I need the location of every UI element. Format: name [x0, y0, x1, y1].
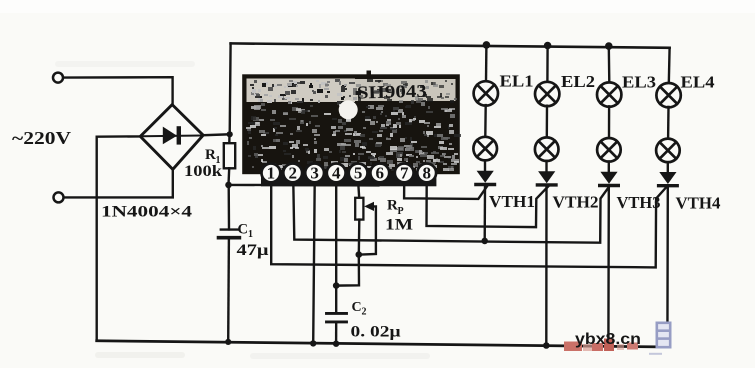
wire T2 to bridge bottom	[64, 167, 173, 197]
svg-text:EL1: EL1	[500, 72, 534, 91]
resistor R1	[228, 134, 231, 143]
wire EL1a to EL1b	[484, 105, 487, 137]
svg-text:1: 1	[267, 164, 276, 183]
wire pin5 to RP	[358, 182, 359, 198]
wire rail to EL1a	[485, 45, 488, 82]
wire VTH4 cathode to bottom rail	[666, 188, 669, 345]
wire VTH1 cathode to pin2 line	[484, 187, 487, 241]
svg-text:EL2: EL2	[561, 72, 595, 91]
svg-text:5: 5	[354, 164, 363, 183]
svg-text:ybx8.cn: ybx8.cn	[575, 331, 641, 348]
svg-text:3: 3	[310, 164, 319, 183]
lamp EL4a	[656, 83, 680, 107]
svg-text:VTH4: VTH4	[676, 194, 721, 213]
pin number labels 1-8	[267, 164, 431, 183]
top rail	[231, 43, 670, 47]
pin 1	[262, 164, 281, 183]
wire bridge DC+ to node	[203, 133, 230, 136]
wire pin4 down	[335, 182, 337, 312]
potentiometer RP	[355, 198, 363, 220]
svg-text:1M: 1M	[385, 217, 413, 234]
wire pin7 to VTH1 gate	[404, 182, 487, 199]
lamp EL3b	[597, 138, 621, 162]
svg-text:2: 2	[288, 164, 297, 183]
thyristor VTH2	[538, 171, 555, 183]
lamp EL1b	[473, 137, 497, 161]
wire left rail up to top rail	[228, 43, 231, 134]
IC white circle	[339, 100, 358, 119]
wire VTH2 cathode to bottom rail	[545, 187, 548, 345]
svg-text:8: 8	[422, 164, 431, 183]
wire EL3a to EL3b	[608, 106, 610, 138]
svg-text:VTH2: VTH2	[553, 193, 599, 212]
node rail-3	[605, 42, 613, 50]
svg-text:EL4: EL4	[681, 73, 716, 92]
watermark blue icon	[649, 323, 671, 354]
wire EL4b to VTH4	[667, 162, 669, 173]
svg-text:1: 1	[248, 229, 253, 240]
node C2 on bottom rail	[333, 341, 339, 347]
wire rail to EL2a	[546, 46, 549, 83]
node rail-1	[483, 41, 491, 49]
wire pin2 to VTH3 gate	[293, 182, 609, 243]
lamp EL2a	[535, 82, 559, 106]
svg-text:0. 02μ: 0. 02μ	[351, 324, 401, 341]
svg-text:~220V: ~220V	[12, 128, 71, 148]
svg-text:SH9043: SH9043	[357, 81, 427, 103]
wire EL1b to VTH1	[484, 160, 486, 172]
wire bridge DC- to left rail and bottom rail	[97, 136, 141, 340]
lamp EL3a	[597, 82, 621, 106]
capacitor C1	[227, 185, 230, 230]
thyristor VTH3	[600, 172, 617, 184]
node pin3 on bottom rail	[310, 340, 316, 346]
node C1-bottom on rail	[225, 339, 231, 345]
lamp EL4b	[656, 139, 680, 163]
wire VTH3 cathode to bottom rail	[607, 188, 610, 346]
pin 6	[370, 164, 389, 183]
svg-text:2: 2	[362, 307, 367, 318]
pin 7	[395, 164, 414, 183]
node E (RP bottom / wiper junction)	[356, 251, 363, 258]
pin 4	[327, 164, 346, 183]
thyristor VTH1	[477, 171, 494, 183]
wire pin1 to VTH4 gate	[271, 182, 667, 267]
node A (bridge output junction)	[227, 131, 233, 137]
svg-text:47μ: 47μ	[237, 242, 269, 259]
wire T1 to bridge top	[63, 77, 172, 107]
pin 3	[305, 164, 324, 183]
node rail-2	[544, 42, 552, 50]
svg-text:C: C	[352, 300, 362, 315]
wire pin8 to VTH2 gate	[427, 182, 549, 227]
wire EL2a to EL2b	[546, 106, 549, 138]
pin 2	[283, 164, 302, 183]
node VTH2 cathode on bottom rail	[543, 342, 550, 349]
node D (pin4 / RP return junction)	[333, 282, 340, 289]
lamp EL1a	[474, 81, 498, 105]
IC module U1 SH9043 (photo block)	[243, 71, 461, 174]
lamp EL2b	[535, 137, 559, 161]
diode inside bridge	[143, 135, 201, 138]
wire EL2b to VTH2	[545, 161, 547, 173]
bottom rail	[97, 341, 670, 347]
svg-text:6: 6	[376, 164, 385, 183]
wire node B to pin 6	[229, 182, 380, 185]
capacitor C2	[327, 312, 347, 315]
wire rail corner to EL4a	[668, 48, 671, 84]
svg-text:4: 4	[332, 164, 341, 183]
thyristor VTH4	[659, 172, 676, 184]
wire EL3b to VTH3	[608, 162, 610, 174]
svg-text:7: 7	[400, 164, 409, 183]
wire node E to node D	[336, 255, 359, 286]
svg-text:R: R	[205, 147, 216, 163]
svg-text:VTH3: VTH3	[617, 193, 661, 212]
watermark ybx8.cn	[564, 331, 641, 351]
svg-text:P: P	[398, 206, 404, 217]
svg-text:1N4004×4: 1N4004×4	[101, 204, 192, 221]
wire EL4a to EL4b	[667, 107, 670, 139]
svg-text:R: R	[387, 198, 398, 214]
wire rail to EL3a	[608, 46, 611, 83]
wire pin3 to bottom rail	[313, 182, 315, 343]
svg-text:C: C	[238, 222, 248, 238]
RP wiper arm	[359, 206, 376, 254]
IC bottom edge strip behind pins	[261, 173, 436, 187]
terminal T1 (top AC input)	[53, 73, 63, 83]
svg-text:100k: 100k	[184, 163, 222, 180]
terminal T2 (bottom AC input)	[54, 192, 64, 202]
node B (R1 bottom junction)	[225, 182, 232, 189]
bridge rectifier D1 1N4004x4	[140, 105, 203, 170]
svg-text:VTH1: VTH1	[489, 192, 535, 211]
svg-text:EL3: EL3	[622, 73, 656, 92]
pin 5	[349, 164, 368, 183]
node VTH1 cathode junction	[481, 238, 488, 245]
pin 8	[417, 164, 436, 183]
